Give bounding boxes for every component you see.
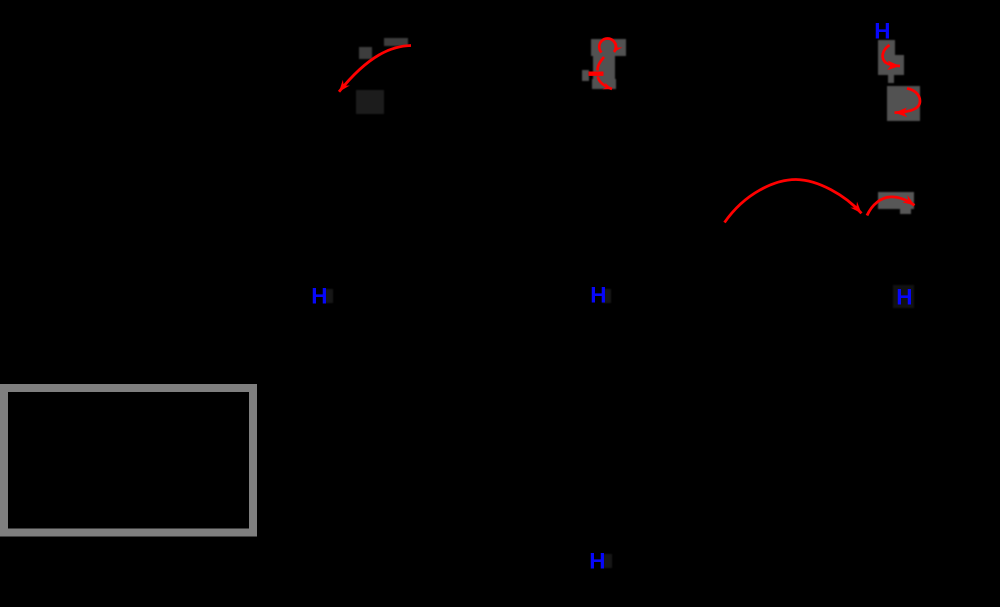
label mask near arrow A head (356, 90, 384, 114)
label masks cluster B (582, 39, 626, 89)
curved arrow B2 lower part (598, 77, 612, 90)
svg-text:H: H (874, 19, 890, 44)
label mask near arrow A tail (359, 38, 408, 59)
svg-text:H: H (590, 282, 606, 307)
red bar B2 (589, 72, 604, 76)
gray box (catalyst frame) (4, 388, 253, 533)
faint label halos near H atoms (325, 285, 914, 568)
curved arrow C2 (c-arc, right) (895, 89, 921, 113)
curved arrow D2 (867, 197, 915, 216)
svg-text:H: H (589, 548, 605, 573)
label masks cluster D (arrow junction) (878, 192, 914, 214)
svg-text:H: H (311, 283, 327, 308)
curved arrow B1 (small loop) (599, 38, 616, 52)
curved arrow A (339, 46, 411, 92)
svg-text:H: H (896, 284, 912, 309)
label masks cluster C (top right) (878, 40, 920, 121)
curved arrow C1 (hook, top right) (883, 45, 900, 66)
long curved arrow D1 (725, 180, 862, 223)
curved arrow B2 (S-curve down) (597, 57, 604, 71)
